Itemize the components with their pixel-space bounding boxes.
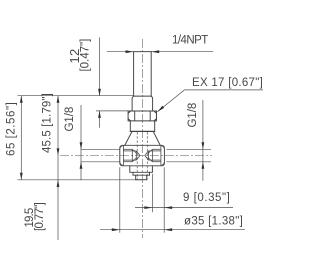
svg-text:G1/8: G1/8 xyxy=(187,103,199,128)
svg-text:45.5 [1.79"]: 45.5 [1.79"] xyxy=(42,93,54,153)
svg-text:EX 17 [0.67"]: EX 17 [0.67"] xyxy=(192,77,263,89)
svg-text:ø35 [1.38"]: ø35 [1.38"] xyxy=(184,216,243,228)
svg-text:1/4NPT: 1/4NPT xyxy=(172,35,209,47)
svg-text:[0.47"]: [0.47"] xyxy=(80,39,92,72)
svg-text:[0.77"]: [0.77"] xyxy=(34,202,46,231)
svg-text:9 [0.35"]: 9 [0.35"] xyxy=(183,192,230,204)
svg-text:G1/8: G1/8 xyxy=(64,107,76,132)
svg-text:65 [2.56"]: 65 [2.56"] xyxy=(6,102,18,156)
